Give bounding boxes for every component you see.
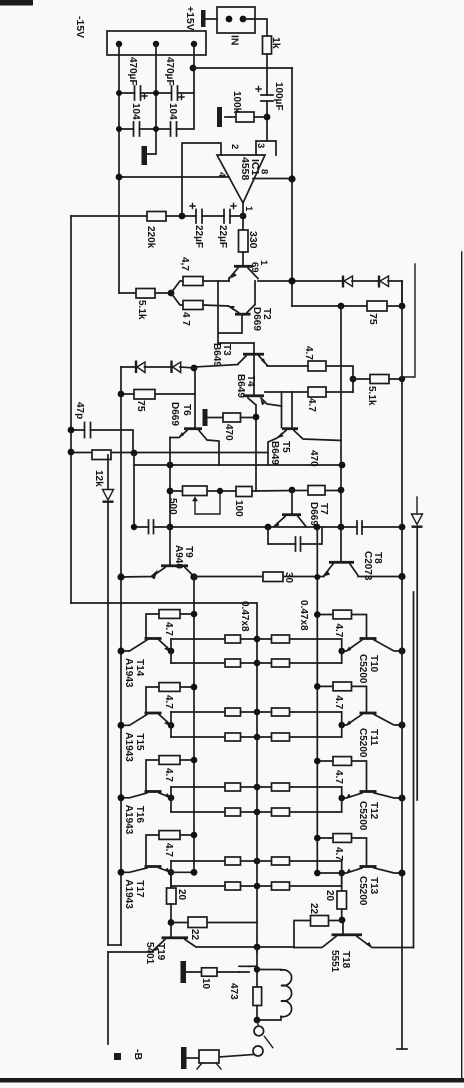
node bus317 at 577	[314, 574, 320, 580]
svg-text:T18: T18	[340, 951, 351, 969]
wire +15V pin down	[193, 44, 195, 68]
svg-text:470: 470	[223, 424, 234, 441]
node 268/527	[265, 524, 272, 531]
svg-text:T6: T6	[181, 404, 192, 416]
node 170/491	[167, 488, 174, 495]
svg-text:220k: 220k	[145, 226, 156, 249]
node bias line left	[338, 303, 345, 310]
resistor 4.7 base T12	[317, 761, 366, 792]
power terminal block	[107, 31, 206, 55]
resistor 100	[236, 487, 252, 497]
svg-text:4.7: 4.7	[333, 695, 344, 709]
transistor T18	[341, 873, 343, 891]
node 470uF row mid	[153, 90, 159, 96]
svg-text:1: 1	[243, 206, 254, 212]
terminal tick	[264, 1036, 272, 1047]
resistor 4.7 (upper)	[171, 281, 203, 293]
resistor 75 (left)	[121, 393, 195, 395]
pin 2 wire	[182, 143, 221, 216]
transistor T10 C5200	[360, 637, 377, 640]
node output line	[254, 944, 261, 951]
wire base bus right	[317, 527, 341, 873]
resistor 4.7 (T4 base row)	[265, 391, 353, 393]
transistor T7	[291, 490, 293, 514]
svg-text:5.1k: 5.1k	[136, 300, 147, 320]
svg-text:T5: T5	[280, 441, 291, 453]
resistor 470 (to ground)	[223, 413, 241, 422]
wire right rail segment upper	[402, 264, 415, 377]
svg-text:22: 22	[308, 903, 319, 915]
wire feedback row	[71, 215, 243, 217]
svg-text:4: 4	[216, 172, 227, 178]
resistor 4.7 base T17	[146, 835, 194, 867]
resistor 4.7 base T10	[317, 615, 366, 639]
svg-text:C2073: C2073	[362, 551, 373, 581]
svg-text:20: 20	[176, 889, 187, 901]
resistor 4.7 base T16	[146, 760, 194, 792]
svg-text:104: 104	[130, 103, 141, 120]
wire gnd pin down	[155, 44, 157, 129]
resistor 0.47 row 737 right	[257, 736, 342, 738]
svg-text:A1943: A1943	[123, 658, 134, 688]
resistor 20 (left)	[170, 872, 172, 888]
svg-text:10: 10	[200, 978, 211, 990]
diode on -B feed	[107, 455, 109, 489]
resistor 4.7 (lower)	[171, 293, 228, 306]
node diode row right	[191, 365, 198, 372]
node output to terminal	[254, 1017, 261, 1024]
svg-text:3: 3	[255, 143, 266, 148]
svg-text:500: 500	[167, 498, 178, 515]
ground at T6 470	[203, 409, 208, 426]
resistor 0.47 row 663 left	[171, 662, 257, 664]
node +15V rail at T1 row	[288, 277, 295, 284]
svg-text:C5200: C5200	[357, 728, 368, 758]
resistor 4.7 base T15	[146, 687, 194, 713]
svg-text:T12: T12	[368, 802, 379, 820]
pin 4 wire to -15V rail	[119, 176, 229, 178]
resistor 4.7 base T14	[146, 614, 194, 639]
resistor 4.7 base T11	[317, 686, 366, 713]
jack plug bar	[201, 10, 206, 27]
node T1/T2 emitter resistor junction	[168, 290, 175, 297]
wire T3 emitter row to 4.7	[267, 366, 353, 392]
node 170/527	[167, 524, 174, 531]
transistor T2	[235, 313, 251, 316]
svg-text:22µF: 22µF	[193, 225, 204, 248]
transistor T12 C5200	[360, 790, 377, 793]
svg-text:75: 75	[135, 400, 147, 412]
node 341/490	[338, 487, 345, 494]
transistor T14 A1943	[145, 637, 162, 640]
wire py527 row	[134, 526, 402, 528]
svg-text:D669: D669	[169, 402, 180, 426]
svg-text:IN: IN	[229, 35, 241, 46]
wire T17 emitter to 20	[171, 871, 194, 873]
wire +15V rail (to op-amp pin8 and T1/T2 collectors)	[291, 68, 293, 306]
svg-text:-15V: -15V	[74, 16, 86, 38]
capacitor 104 #2	[171, 122, 177, 136]
resistor 22 (right)	[294, 921, 342, 948]
transistor T9	[161, 564, 188, 567]
wire 1k down (crosses +15V feed)	[266, 54, 268, 95]
svg-text:C5200: C5200	[357, 801, 368, 831]
wire output node down	[256, 947, 258, 987]
pin 8 wire to +15V rail	[253, 178, 292, 180]
node 317/527	[314, 524, 321, 531]
resistor 0.47 row 812 right	[257, 811, 342, 813]
svg-text:4.7: 4.7	[163, 695, 174, 709]
diode D3	[135, 361, 137, 374]
node T19 base	[168, 919, 175, 926]
op-amp IC1 4558 triangle	[217, 155, 265, 203]
resistor 0.47 row 861 right	[257, 860, 342, 862]
wire base bus left	[193, 577, 195, 872]
node GND pin	[153, 41, 159, 47]
svg-text:4.7: 4.7	[333, 770, 344, 784]
svg-text:1k: 1k	[270, 37, 282, 49]
border right	[461, 252, 463, 1080]
node 5.1k junction	[350, 376, 357, 383]
wire T1 collector row with bias diodes	[258, 280, 402, 282]
node 134	[131, 450, 138, 457]
resistor 0.47 row 787 right	[257, 786, 342, 788]
node main + rail at 5.1k	[399, 376, 405, 382]
inductor coil	[257, 969, 281, 972]
resistor 0.47 row 712 left	[171, 711, 257, 713]
svg-text:4.7: 4.7	[163, 843, 174, 857]
svg-text:470: 470	[308, 450, 319, 467]
emitter junction vertical T16	[170, 787, 172, 812]
node inverting input junction	[179, 213, 186, 220]
node VAS base	[289, 487, 296, 494]
capacitor 22uF #1	[196, 210, 202, 224]
rail end tick	[397, 1048, 407, 1050]
resistor 470 (VAS)	[292, 490, 341, 492]
node +15V junction	[190, 65, 197, 72]
wire -B rail corner	[108, 944, 121, 946]
transistor T1	[234, 265, 253, 268]
transistor T6	[194, 368, 196, 428]
transistor T3	[243, 353, 264, 356]
transistor T4	[243, 394, 264, 397]
svg-text:30: 30	[283, 572, 294, 584]
emitter junction vertical T12	[341, 787, 343, 812]
svg-text:5551: 5551	[329, 950, 340, 973]
node 134/527	[131, 524, 137, 530]
resistor 0.47 row 812 left	[171, 811, 257, 813]
resistor 0.47 row 886 right	[257, 885, 342, 887]
svg-text:-B: -B	[132, 1049, 144, 1060]
resistor 0.47 row 639 left	[171, 638, 257, 640]
svg-text:4.7: 4.7	[303, 346, 314, 360]
svg-text:100µF: 100µF	[273, 82, 284, 111]
svg-text:100: 100	[233, 500, 244, 517]
svg-text:C5200: C5200	[357, 654, 368, 684]
wire T3 collector to diode row	[194, 365, 238, 368]
svg-text:5.1k: 5.1k	[366, 386, 377, 406]
node rail527	[399, 524, 406, 531]
resistor 5.1k (left, from -15V rail)	[119, 292, 171, 294]
node 104 row mid	[153, 126, 159, 132]
svg-text:B649: B649	[235, 374, 246, 398]
wire right rail lower	[413, 592, 415, 948]
svg-text:C5200: C5200	[357, 876, 368, 906]
resistor 0.47 row 712 right	[257, 711, 342, 713]
node 341/527	[338, 524, 345, 531]
svg-text:T14: T14	[134, 659, 145, 677]
svg-text:4.7: 4.7	[163, 622, 174, 636]
emitter junction vertical T15	[170, 712, 172, 737]
capacitor on py527 right	[357, 521, 362, 534]
ground of supply filter	[147, 129, 156, 154]
svg-text:D669: D669	[251, 307, 262, 331]
top-left scan smudge	[0, 0, 33, 6]
svg-text:4,7: 4,7	[179, 257, 190, 271]
svg-text:D669: D669	[308, 502, 319, 526]
ground at 10	[181, 961, 187, 983]
svg-text:4558: 4558	[239, 157, 251, 181]
resistor 12k	[71, 452, 268, 454]
resistor 4.7 (T3 emitter)	[308, 361, 326, 371]
capacitor 470uF #2	[172, 86, 178, 100]
svg-text:T16: T16	[134, 806, 145, 824]
capacitor 22uF #2	[224, 210, 230, 224]
emitter junction vertical T14	[170, 639, 172, 663]
resistor 5.1k (right)	[353, 378, 402, 380]
svg-text:2: 2	[229, 144, 240, 149]
node 170/465	[167, 462, 174, 469]
capacitor 104 #1	[134, 122, 140, 136]
wire -B rail left	[120, 367, 122, 945]
resistor 0.47 row 639 right	[257, 638, 342, 640]
svg-text:22: 22	[189, 929, 200, 941]
svg-text:0.47x8: 0.47x8	[298, 600, 309, 631]
svg-text:470µF: 470µF	[164, 57, 175, 86]
svg-text:T11: T11	[368, 729, 379, 746]
svg-text:A940: A940	[173, 545, 184, 569]
input jack	[217, 7, 255, 33]
svg-text:12k: 12k	[93, 470, 104, 487]
resistor 22 (left)	[171, 922, 257, 924]
svg-text:+15V: +15V	[184, 6, 196, 31]
wire terminal 2 to ground box	[219, 1055, 253, 1058]
resistor 0.47 row 861 left	[171, 860, 257, 862]
wire jack to 1k	[243, 19, 267, 36]
capacitor 47p	[71, 430, 133, 453]
resistor 1k	[263, 36, 272, 54]
wire diode row (left pair)	[121, 367, 194, 368]
resistor 0.47 row 886 left	[171, 885, 257, 887]
svg-text:A1943: A1943	[123, 805, 134, 835]
resistor 75 (right)	[292, 305, 402, 307]
svg-text:4 7: 4 7	[180, 312, 191, 326]
svg-text:T19: T19	[155, 943, 166, 961]
wire 104 row	[119, 93, 194, 129]
resistor 0.47 row 737 left	[171, 736, 257, 738]
capacitor T7 bridge	[268, 527, 322, 544]
svg-text:47p: 47p	[74, 402, 85, 419]
resistor 30	[263, 572, 283, 582]
wire -15V rail	[118, 44, 120, 293]
transistor T19	[162, 936, 189, 939]
wire diode corner down	[401, 281, 403, 306]
svg-text:4.7: 4.7	[306, 398, 317, 412]
transistor T8	[340, 527, 342, 561]
svg-text:69: 69	[249, 262, 260, 273]
svg-text:470µF: 470µF	[127, 57, 138, 86]
wire output feedback row py603	[71, 603, 257, 952]
svg-text:5401: 5401	[144, 942, 155, 965]
svg-text:T17: T17	[134, 880, 145, 898]
transistor T5	[282, 427, 298, 430]
emitter junction vertical T17	[170, 861, 172, 886]
output terminal circle 1	[254, 1026, 264, 1036]
svg-text:4.7: 4.7	[333, 624, 344, 638]
wire 470uF row	[119, 68, 194, 93]
svg-text:4.7: 4.7	[333, 847, 344, 861]
capacitor on py527 left	[149, 520, 154, 534]
wire emitter row py465	[134, 464, 342, 466]
resistor 10	[202, 968, 218, 976]
border bottom	[0, 1078, 464, 1083]
diode D1	[342, 276, 344, 288]
resistor 100k	[225, 116, 267, 118]
wire +15V feed to rail	[193, 67, 292, 69]
svg-text:75: 75	[367, 313, 379, 325]
wire feedback rail left	[70, 216, 72, 603]
resistor 4.7 base T13	[317, 838, 366, 867]
svg-text:4.7: 4.7	[163, 768, 174, 782]
svg-text:A1943: A1943	[123, 879, 134, 909]
svg-text:104: 104	[167, 103, 178, 120]
output terminal circle 2	[253, 1046, 263, 1056]
node -15V pin	[116, 41, 122, 47]
svg-text:100k: 100k	[231, 91, 242, 114]
svg-text:T15: T15	[134, 733, 145, 751]
diode on right rail	[416, 497, 418, 514]
node +15V pin	[191, 41, 197, 47]
emitter junction vertical T10	[341, 639, 343, 663]
svg-text:T10: T10	[368, 655, 379, 673]
transistor T16 A1943	[145, 790, 162, 793]
node 104 row left	[116, 126, 122, 132]
emitter junction vertical T11	[341, 712, 343, 737]
svg-text:8: 8	[259, 169, 270, 174]
wire T1 emitter row	[203, 280, 229, 282]
svg-text:473: 473	[228, 983, 239, 1000]
resistor 0.47 row 787 left	[171, 786, 257, 788]
diode D2	[378, 276, 380, 288]
svg-text:A1943: A1943	[123, 732, 134, 762]
emitter junction vertical T13	[341, 861, 343, 886]
-B tick	[114, 1053, 121, 1060]
node bias line right	[399, 303, 406, 310]
wire T6e down	[169, 438, 171, 565]
damping resistor	[253, 987, 262, 1006]
svg-text:20: 20	[324, 890, 335, 902]
node 470uF row left	[116, 90, 122, 96]
wire T9/T8 emitter row	[194, 576, 324, 578]
potentiometer 500	[170, 490, 236, 492]
node input bias junction	[264, 114, 271, 121]
svg-text:22µF: 22µF	[217, 225, 228, 248]
transistor T13 C5200	[360, 865, 377, 868]
wire -B rail end	[107, 952, 109, 1044]
svg-text:330: 330	[247, 231, 259, 249]
capacitor 470uF #1	[135, 86, 141, 100]
resistor 330	[239, 230, 249, 252]
capacitor 473	[217, 971, 239, 973]
pin 3 box	[256, 141, 276, 155]
svg-text:B649: B649	[269, 441, 280, 465]
ground at bottom center	[181, 1047, 187, 1069]
wire 341 vertical (bias to py527)	[340, 306, 342, 527]
diode D4	[170, 361, 172, 374]
capacitor 100uF coupling	[261, 95, 273, 101]
svg-text:B649: B649	[211, 343, 222, 367]
wire main + rail	[401, 281, 403, 1049]
node T4 collector / 470	[253, 414, 260, 421]
pin 1 output	[242, 203, 244, 230]
svg-text:0.47x8: 0.47x8	[239, 601, 250, 632]
resistor 20 (right)	[337, 891, 347, 909]
node op-amp output	[240, 213, 247, 220]
transistor T11 C5200	[360, 712, 377, 715]
resistor 220k	[147, 212, 166, 222]
ground at 100k	[217, 107, 222, 127]
resistor 0.47 row 663 right	[257, 662, 342, 664]
transistor T15 A1943	[145, 712, 162, 715]
transistor T17 A1943	[145, 865, 162, 868]
node 342/465	[339, 462, 346, 469]
svg-text:T13: T13	[368, 877, 379, 895]
